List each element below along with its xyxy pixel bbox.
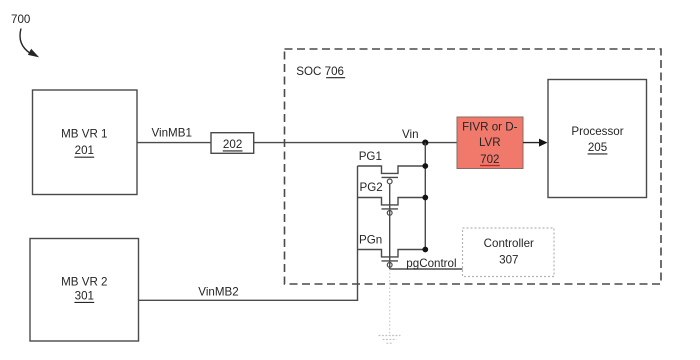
controller block 307 (ghosted) (463, 228, 555, 277)
ground symbol (ghosted) (379, 336, 401, 344)
svg-text:205: 205 (588, 141, 607, 154)
filter component 202 (211, 133, 254, 154)
figure reference numeral 700 (11, 13, 30, 26)
voltage regulator MB VR 1 201 (33, 90, 138, 195)
svg-text:307: 307 (499, 254, 518, 267)
svg-text:pgControl: pgControl (406, 257, 456, 270)
svg-text:202: 202 (223, 138, 242, 151)
svg-text:PG2: PG2 (360, 181, 383, 194)
left bus connecting power gate inputs to VinMB2 (357, 166, 359, 300)
svg-text:Processor: Processor (571, 125, 623, 138)
svg-text:SOC 706: SOC 706 (296, 65, 344, 78)
svg-text:PGn: PGn (359, 234, 382, 247)
ghost wire from pgControl down to ground (389, 269, 391, 335)
svg-text:LVR: LVR (479, 136, 501, 149)
svg-text:VinMB2: VinMB2 (198, 286, 238, 299)
wire pgControl from gates toward controller (390, 268, 463, 270)
FIVR or D-LVR 702 block (457, 117, 523, 169)
junction dot PG2 drain on Vin bus (422, 195, 428, 201)
wire with arrow from FIVR 702 to Processor 205 (523, 139, 548, 147)
power gate transistor PG1 (358, 166, 426, 184)
junction dot PG1 drain on Vin bus (422, 163, 428, 169)
SOC boundary 706 (dashed) (285, 49, 662, 284)
power gate transistor PG2 (358, 198, 426, 216)
wire VinMB2 from MB VR 2 to power gates (139, 299, 359, 301)
vertical bus on Vin node (right side of power gates) (424, 143, 426, 250)
voltage regulator MB VR 2 301 (30, 239, 139, 342)
svg-text:FIVR or D-: FIVR or D- (462, 121, 518, 134)
svg-text:201: 201 (75, 144, 94, 157)
svg-text:MB VR 1: MB VR 1 (61, 128, 107, 141)
common gate wire linking PG1 PG2 PGn gates (389, 184, 391, 269)
junction dot PGn drain on Vin bus (422, 247, 428, 253)
wire from 202 into SOC to FIVR input (254, 142, 457, 144)
lead arrow for 700 (20, 29, 39, 58)
junction dot node Vin (422, 140, 428, 146)
svg-text:702: 702 (480, 153, 499, 166)
svg-text:Controller: Controller (484, 237, 534, 250)
svg-text:VinMB1: VinMB1 (152, 126, 192, 139)
svg-text:Vin: Vin (402, 128, 419, 141)
label SOC 706 (296, 65, 345, 78)
svg-text:700: 700 (11, 13, 30, 26)
svg-text:MB VR 2: MB VR 2 (61, 276, 107, 289)
svg-text:301: 301 (75, 290, 94, 303)
processor block 205 (548, 80, 647, 198)
svg-text:PG1: PG1 (359, 150, 382, 163)
power gate transistor PGn (358, 250, 426, 268)
wire VinMB1 from MB VR 1 to filter 202 (137, 142, 211, 144)
